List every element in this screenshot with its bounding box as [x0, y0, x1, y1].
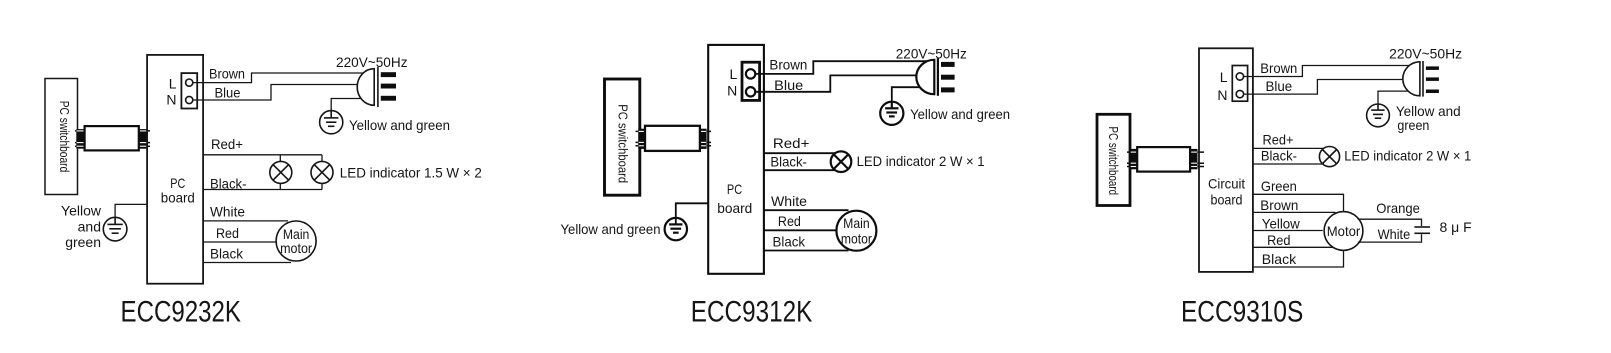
svg-text:Black: Black — [773, 233, 806, 249]
ground symbol plug side (2) — [880, 102, 903, 125]
LED indicator DS2 — [311, 161, 333, 183]
svg-text:Blue: Blue — [1266, 78, 1293, 94]
svg-text:N: N — [1217, 87, 1227, 103]
wire White (2) — [764, 209, 849, 211]
wire Orange (3) — [1358, 219, 1422, 226]
svg-text:Black-: Black- — [1261, 148, 1297, 164]
svg-text:LED indicator 1.5 W × 2: LED indicator 1.5 W × 2 — [340, 164, 482, 180]
svg-text:Red: Red — [778, 213, 801, 229]
wire Yellow (3) — [1253, 230, 1323, 232]
svg-text:Main: Main — [843, 215, 870, 231]
svg-text:Brown: Brown — [1260, 197, 1298, 213]
wire Red+ rail (2) — [764, 152, 836, 154]
svg-text:White: White — [1378, 226, 1411, 242]
svg-text:Brown: Brown — [769, 57, 807, 73]
svg-text:Orange: Orange — [1376, 200, 1420, 216]
wire plug earth (3) — [1378, 91, 1408, 104]
PC switchboard SW2 — [605, 79, 640, 195]
terminal block L/N (3) — [1217, 66, 1247, 103]
wire Brown (2) — [755, 61, 929, 74]
svg-text:and: and — [78, 218, 101, 234]
mains plug P3 — [1403, 61, 1439, 97]
wire Red+ rail — [203, 154, 322, 156]
svg-text:L: L — [1220, 69, 1228, 85]
cable connector J1 — [75, 126, 150, 150]
svg-text:Yellow: Yellow — [1262, 216, 1301, 232]
svg-text:Brown: Brown — [209, 66, 245, 82]
PC switchboard SW3 — [1097, 114, 1130, 205]
wire White — [203, 220, 288, 222]
svg-text:PC switchboard: PC switchboard — [1106, 127, 1121, 196]
svg-text:green: green — [65, 234, 101, 250]
svg-text:Red+: Red+ — [1263, 132, 1294, 148]
svg-text:Circuit: Circuit — [1208, 176, 1245, 192]
PC board U1 — [147, 55, 203, 284]
main motor M1 — [276, 221, 316, 261]
svg-text:Yellow: Yellow — [61, 202, 102, 218]
PC switchboard SW1 — [45, 79, 78, 195]
svg-text:Black: Black — [1262, 251, 1297, 267]
cable connector J3 — [1127, 147, 1204, 172]
capacitor C1 8uF — [1414, 227, 1430, 233]
wire Red+ rail (3) — [1253, 147, 1324, 149]
circuit board U3 — [1199, 48, 1253, 272]
svg-text:Red+: Red+ — [211, 136, 243, 152]
ground symbol plug side (3) — [1367, 104, 1390, 127]
svg-text:ECC9232K: ECC9232K — [121, 295, 242, 328]
svg-text:Black: Black — [210, 246, 244, 262]
mains plug P2 — [916, 58, 954, 96]
wire White (3) — [1358, 234, 1422, 242]
wire Brown (3) — [1244, 66, 1411, 77]
svg-text:board: board — [717, 200, 752, 216]
svg-text:Red: Red — [1267, 232, 1290, 248]
svg-text:PC: PC — [727, 181, 742, 197]
wire Brown motor (3) — [1253, 211, 1336, 213]
svg-text:motor: motor — [841, 230, 872, 246]
wire Black- rail (2) — [764, 169, 836, 171]
svg-text:board: board — [161, 189, 195, 205]
wire Blue (3) — [1244, 80, 1406, 95]
wire plug earth — [331, 99, 364, 112]
svg-text:Red: Red — [216, 225, 239, 241]
svg-text:Red+: Red+ — [773, 135, 810, 151]
PC board U2 — [708, 45, 764, 274]
wire board earth (2) — [676, 203, 708, 224]
svg-text:L: L — [169, 76, 177, 92]
wire Red (3) — [1253, 246, 1333, 248]
ground symbol board side — [103, 217, 127, 241]
wire board earth — [115, 204, 147, 217]
wire plug earth (2) — [892, 87, 921, 102]
svg-text:Motor: Motor — [1327, 223, 1361, 239]
motor M3 — [1324, 212, 1363, 251]
svg-text:Black-: Black- — [210, 175, 247, 191]
ground symbol board side (2) — [665, 218, 687, 240]
wire Black (3) — [1253, 250, 1344, 267]
svg-text:Yellow and green: Yellow and green — [910, 106, 1010, 122]
svg-text:ECC9312K: ECC9312K — [691, 296, 813, 329]
wire Brown — [194, 73, 369, 83]
wire Green (3) — [1253, 194, 1344, 211]
svg-text:White: White — [771, 193, 807, 209]
terminal block L/N (2) — [727, 62, 759, 100]
svg-text:Black-: Black- — [770, 154, 807, 170]
wire Black — [203, 262, 291, 264]
svg-text:Yellow and green: Yellow and green — [561, 221, 661, 237]
wire Red — [203, 241, 277, 243]
svg-text:green: green — [1397, 117, 1429, 133]
ground symbol plug side — [320, 111, 343, 134]
mains plug P1 — [357, 67, 396, 107]
svg-text:L: L — [730, 66, 738, 82]
svg-text:Blue: Blue — [215, 85, 241, 101]
cable connector J2 — [636, 126, 712, 151]
svg-text:LED indicator 2 W × 1: LED indicator 2 W × 1 — [1344, 148, 1471, 164]
wire Black- rail (3) — [1253, 163, 1324, 165]
svg-text:N: N — [166, 92, 176, 108]
svg-text:N: N — [727, 83, 737, 99]
LED indicator DS1 — [270, 161, 292, 183]
label Yellow and green (board) — [61, 202, 102, 250]
label Yellow and green (3 plug) — [1396, 103, 1461, 133]
wire Blue (2) — [755, 75, 918, 91]
terminal block L/N — [166, 73, 197, 108]
svg-text:ECC9310S: ECC9310S — [1181, 296, 1303, 329]
LED indicator DS3 — [831, 151, 852, 172]
svg-text:LED indicator 2 W × 1: LED indicator 2 W × 1 — [857, 153, 985, 169]
svg-text:8 μ F: 8 μ F — [1440, 219, 1472, 235]
wire Blue — [194, 85, 363, 101]
svg-text:220V~50Hz: 220V~50Hz — [1389, 45, 1462, 61]
svg-text:White: White — [210, 204, 245, 220]
svg-text:Brown: Brown — [1260, 60, 1297, 76]
svg-text:PC switchboard: PC switchboard — [615, 104, 630, 183]
wire Black (2) — [764, 250, 849, 252]
wire Red (2) — [764, 229, 837, 231]
svg-text:motor: motor — [280, 240, 312, 256]
svg-text:Yellow and green: Yellow and green — [349, 117, 450, 133]
svg-text:Blue: Blue — [774, 77, 803, 93]
svg-text:220V~50Hz: 220V~50Hz — [336, 54, 408, 70]
svg-text:PC switchboard: PC switchboard — [57, 101, 72, 173]
main motor M2 — [836, 211, 876, 251]
svg-text:Green: Green — [1261, 178, 1297, 194]
svg-text:board: board — [1211, 191, 1243, 207]
wire Black- rail — [203, 189, 322, 191]
LED indicator DS4 — [1319, 147, 1339, 167]
